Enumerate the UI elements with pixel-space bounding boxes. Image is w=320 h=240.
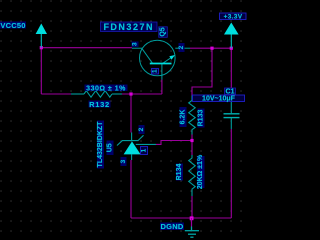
part label TL432BIDKZT (rotated) xyxy=(97,121,104,169)
value label 20K ohm 1% (rotated) xyxy=(197,156,205,188)
svg-text:20KΩ ±1%: 20KΩ ±1% xyxy=(197,154,204,189)
resistor R132 xyxy=(71,91,122,98)
svg-text:VCC50: VCC50 xyxy=(0,21,25,30)
designator Q5 (rotated) xyxy=(159,27,168,38)
wire VCC50 rail to Q5 pin3 xyxy=(41,47,132,49)
power label VCC50 xyxy=(0,22,26,29)
pin 1 label U5 xyxy=(141,147,148,155)
power symbol VCC50 arrow xyxy=(36,24,47,35)
pin 3 label Q5 xyxy=(132,42,139,48)
svg-text:1: 1 xyxy=(152,69,159,73)
pin 2 label U5 xyxy=(139,125,145,134)
transistor Q5 FDN327N body xyxy=(132,40,190,79)
wire U5 ref to R133/R134 node xyxy=(156,141,192,145)
svg-text:1: 1 xyxy=(141,148,148,152)
svg-text:R133: R133 xyxy=(198,110,205,127)
ground label DGND xyxy=(160,223,184,231)
svg-text:3: 3 xyxy=(120,159,127,163)
power label +3.3V xyxy=(220,13,247,20)
svg-text:2: 2 xyxy=(138,127,145,131)
svg-text:R132: R132 xyxy=(89,100,110,109)
node junction ground rail xyxy=(190,216,194,220)
node junction R132 / Q5 pin1 / U5 cathode xyxy=(129,92,132,95)
svg-text:Q5: Q5 xyxy=(160,27,167,36)
collector diagonal xyxy=(142,48,153,63)
svg-text:6.2K: 6.2K xyxy=(180,110,187,125)
svg-text:FDN327N: FDN327N xyxy=(103,22,154,32)
value label 10V~10uF xyxy=(193,95,245,102)
svg-text:+3.3V: +3.3V xyxy=(224,14,243,21)
transistor Q5 emitter arrowhead xyxy=(169,55,175,60)
wire R134 bottom to ground rail xyxy=(191,196,193,218)
wire C1 bottom down to ground rail xyxy=(230,129,232,218)
designator U5 (rotated) xyxy=(107,141,114,156)
label C1 xyxy=(225,88,236,95)
label FDN327N xyxy=(101,22,158,32)
designator R134 (rotated) xyxy=(176,164,183,181)
pin 2 stub xyxy=(131,133,133,141)
svg-text:2: 2 xyxy=(178,45,185,49)
pin 1 label Q5 xyxy=(152,69,159,75)
wire U5 anode down to ground rail xyxy=(130,160,132,218)
value label 6.2K (rotated) xyxy=(180,107,187,127)
svg-text:DGND: DGND xyxy=(161,222,184,231)
pin 3 label U5 xyxy=(121,157,127,166)
svg-text:TL432BIDKZT: TL432BIDKZT xyxy=(97,121,104,168)
wire VCC50 down to R132 row xyxy=(40,48,42,94)
pin 2 label Q5 xyxy=(179,43,185,52)
node junction VCC50 xyxy=(40,46,43,49)
resistor R134 (vertical) xyxy=(189,155,196,196)
ground DGND symbol xyxy=(191,218,193,227)
wire down to U5 cathode xyxy=(130,94,132,133)
wire up to Q5 pin1 xyxy=(161,80,163,95)
wire down from 3.3V rail to R133 jog xyxy=(192,48,212,95)
wire Q5 pin2 to +3.3V rail xyxy=(190,47,231,49)
U5 triangle xyxy=(124,141,141,154)
transistor Q5 base bar xyxy=(150,63,172,65)
designator R133 (rotated) xyxy=(198,109,205,128)
resistor R133 (vertical) xyxy=(189,96,196,135)
emitter diagonal xyxy=(162,57,173,64)
wire R133 bottom to R134 top xyxy=(191,134,193,155)
value label 330 ohm xyxy=(85,85,128,92)
node junction 3.3V arrow / C1 branch xyxy=(230,47,233,50)
ref pin line xyxy=(136,143,156,145)
wire bottom ground rail xyxy=(131,217,231,219)
svg-text:330Ω ± 1%: 330Ω ± 1% xyxy=(86,85,126,92)
shunt regulator U5 TL432 xyxy=(117,133,156,161)
svg-text:3: 3 xyxy=(132,42,139,46)
designator R132 xyxy=(89,101,111,108)
pin 3 stub xyxy=(132,47,142,49)
node junction 3.3V rail / R133 branch xyxy=(210,47,213,50)
pin 1 stub xyxy=(161,64,163,80)
wire to R132 left lead xyxy=(41,93,71,95)
svg-text:U5: U5 xyxy=(107,143,114,152)
cathode bar with ticks xyxy=(117,135,144,145)
capacitor C1 xyxy=(224,102,240,129)
node junction ref / R133 / R134 xyxy=(190,139,193,142)
pin 2 stub xyxy=(175,47,190,49)
wire right rail down to C1 xyxy=(230,48,232,102)
wire R132 right lead to Q5 pin1 column xyxy=(122,93,162,95)
pin 3 stub xyxy=(131,154,133,160)
svg-text:10V~10μF: 10V~10μF xyxy=(202,96,236,103)
svg-text:R134: R134 xyxy=(176,164,183,181)
power symbol +3.3V arrow xyxy=(224,23,239,35)
